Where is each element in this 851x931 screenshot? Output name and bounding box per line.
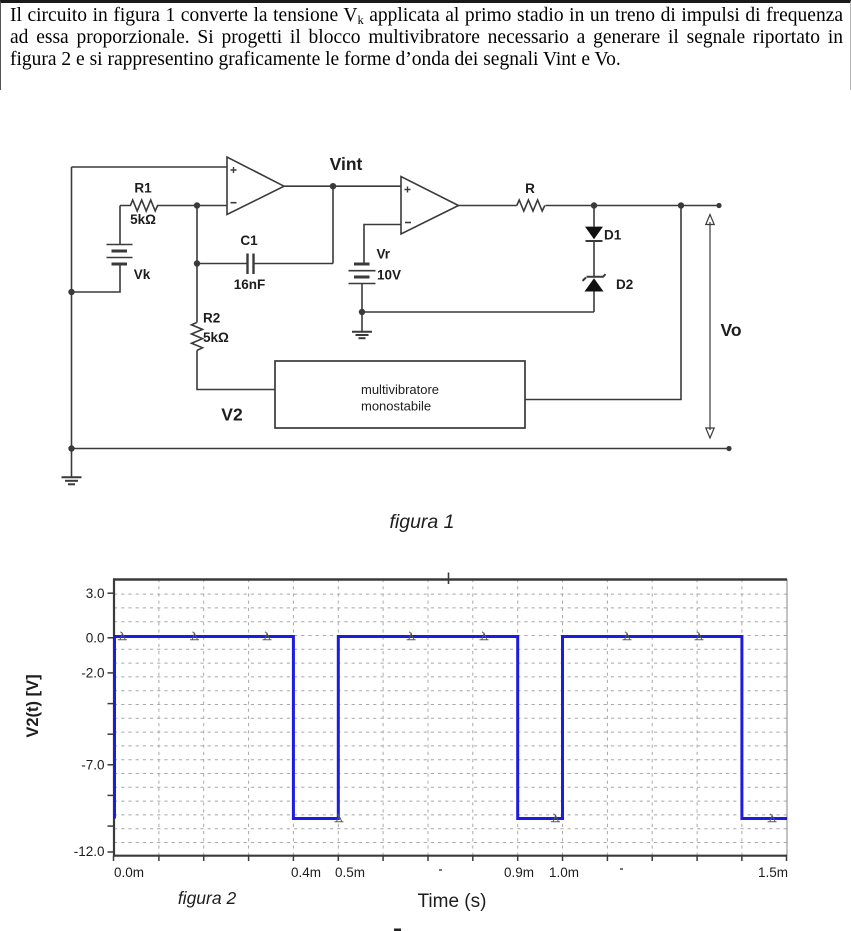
wire R to output node bbox=[545, 205, 719, 207]
svg-text:R2: R2 bbox=[203, 311, 220, 326]
svg-text:multivibratore: multivibratore bbox=[361, 382, 439, 397]
svg-text:R1: R1 bbox=[134, 181, 152, 196]
grid vertical dashed bbox=[159, 579, 742, 855]
svg-text:0.4m: 0.4m bbox=[291, 865, 321, 880]
svg-text:D1: D1 bbox=[604, 228, 622, 243]
node rail left dot bbox=[68, 445, 74, 451]
bottom edge artifact bbox=[394, 929, 401, 931]
node A junction bbox=[194, 202, 200, 208]
svg-text:1.0m: 1.0m bbox=[549, 865, 579, 880]
cursor tick on top border bbox=[448, 573, 450, 585]
svg-text:-12.0: -12.0 bbox=[74, 844, 105, 859]
wire D1 to D2 bbox=[593, 241, 595, 277]
y axis labels bbox=[74, 586, 105, 859]
trace markers bbox=[118, 632, 777, 822]
battery Vk bbox=[107, 245, 133, 265]
wire feedback down bbox=[525, 206, 681, 400]
svg-text:monostabile: monostabile bbox=[361, 399, 431, 414]
svg-text:16nF: 16nF bbox=[234, 277, 266, 292]
wire C1 to Vint column bbox=[254, 263, 334, 265]
svg-text:V2: V2 bbox=[221, 405, 243, 425]
x axis title Time (s) bbox=[418, 891, 487, 912]
caption figura 1 bbox=[389, 511, 454, 533]
label D2 bbox=[616, 277, 633, 292]
wire Vr bottom lead bbox=[361, 284, 363, 313]
wire op-amp2 - input bbox=[364, 225, 401, 264]
label 5kOhm R1 bbox=[130, 212, 156, 227]
label multivibratore bbox=[361, 382, 439, 397]
svg-text:3.0: 3.0 bbox=[86, 586, 105, 601]
wire node B to C1 bbox=[197, 263, 247, 265]
plot border top bbox=[113, 578, 787, 581]
svg-text:0.0: 0.0 bbox=[86, 631, 105, 646]
svg-text:1.5m: 1.5m bbox=[758, 865, 788, 880]
x axis labels bbox=[114, 865, 788, 880]
svg-text:0.9m: 0.9m bbox=[504, 865, 534, 880]
Vo measurement arrow bbox=[706, 215, 714, 439]
label D1 bbox=[604, 228, 622, 243]
y axis bbox=[113, 579, 115, 857]
svg-text:0.5m: 0.5m bbox=[335, 865, 365, 880]
wire op-amp1 output to op-amp2 + bbox=[284, 185, 401, 187]
diode D1 bbox=[585, 227, 603, 241]
svg-text:-7.0: -7.0 bbox=[81, 758, 104, 773]
y axis title V2(t) [V] bbox=[24, 674, 42, 737]
svg-text:Vo: Vo bbox=[720, 320, 741, 340]
node Vint junction bbox=[330, 183, 336, 189]
wire R2 top lead bbox=[196, 264, 198, 323]
resistor R2 bbox=[192, 322, 203, 350]
battery Vr bbox=[349, 264, 376, 284]
op-amp U2 bbox=[401, 177, 459, 235]
node D1 top junction bbox=[591, 202, 597, 208]
resistor R bbox=[517, 200, 545, 211]
x axis ticks bbox=[114, 856, 787, 861]
svg-text:R: R bbox=[525, 181, 535, 196]
svg-text:-2.0: -2.0 bbox=[81, 666, 104, 681]
svg-text:C1: C1 bbox=[240, 233, 258, 248]
wire op-amp2 output bbox=[459, 205, 517, 207]
problem text block bbox=[0, 0, 851, 90]
wire node A down bbox=[196, 206, 198, 264]
node feedback junction bbox=[678, 202, 684, 208]
label Vint bbox=[330, 154, 363, 174]
svg-text:figura 2: figura 2 bbox=[178, 888, 237, 908]
svg-text:figura 1: figura 1 bbox=[389, 511, 454, 533]
svg-text:Vr: Vr bbox=[377, 247, 391, 262]
ground main bbox=[62, 449, 82, 485]
wire Vk bottom lead bbox=[72, 264, 121, 292]
svg-text:V2(t) [V]: V2(t) [V] bbox=[24, 674, 42, 737]
x axis bbox=[113, 855, 787, 857]
label Vk bbox=[134, 267, 151, 282]
label V2 bbox=[221, 405, 243, 425]
svg-text:10V: 10V bbox=[377, 268, 401, 283]
node Vr-ground junction bbox=[359, 309, 365, 315]
wire Vr junction to D2 bottom bbox=[362, 311, 594, 313]
label Vo bbox=[720, 320, 741, 340]
node B junction bbox=[194, 260, 200, 266]
label C1 bbox=[240, 233, 258, 248]
svg-text:Time (s): Time (s) bbox=[418, 891, 487, 912]
plot border right bbox=[786, 579, 788, 856]
node battery-rail junction bbox=[68, 289, 74, 295]
svg-text:D2: D2 bbox=[616, 277, 633, 292]
svg-text:Vk: Vk bbox=[134, 267, 151, 282]
wire D2 bottom lead bbox=[593, 292, 595, 313]
svg-text:0.0m: 0.0m bbox=[114, 865, 144, 880]
svg-text:5kΩ: 5kΩ bbox=[203, 330, 229, 345]
label R2 bbox=[203, 311, 220, 326]
wire D1 anode lead bbox=[593, 206, 595, 227]
label R1 bbox=[134, 181, 152, 196]
wire R2 to box bbox=[197, 350, 275, 389]
grid horizontal dashed bbox=[114, 594, 787, 842]
label Vr bbox=[377, 247, 391, 262]
wire Vk top lead bbox=[119, 206, 121, 245]
V2 waveform trace bbox=[115, 637, 788, 819]
label 10V bbox=[377, 268, 401, 283]
label R bbox=[525, 181, 535, 196]
zener diode D2 bbox=[583, 274, 606, 291]
label 5kOhm R2 bbox=[203, 330, 229, 345]
label 16nF bbox=[234, 277, 266, 292]
wire bottom rail bbox=[72, 448, 730, 450]
op-amp U1 bbox=[227, 157, 284, 215]
wire Vint column vertical bbox=[332, 186, 334, 263]
capacitor C1 bbox=[248, 254, 254, 275]
label monostabile bbox=[361, 399, 431, 414]
ground under Vr bbox=[352, 312, 372, 338]
caption figura 2 bbox=[178, 888, 237, 908]
y axis ticks bbox=[108, 593, 115, 852]
wire top to op-amp1 + bbox=[72, 166, 228, 168]
speck artifacts bbox=[439, 868, 623, 871]
node output end dot bbox=[716, 203, 721, 208]
resistor R1 bbox=[120, 200, 227, 211]
node rail right dot bbox=[726, 446, 731, 451]
wire left rail bbox=[71, 167, 73, 449]
box multivibratore monostabile bbox=[275, 361, 525, 428]
svg-text:Vint: Vint bbox=[330, 154, 363, 174]
svg-text:5kΩ: 5kΩ bbox=[130, 212, 156, 227]
